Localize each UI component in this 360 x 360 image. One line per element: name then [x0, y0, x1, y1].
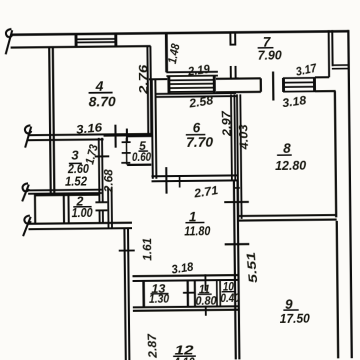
- room3 right wall: [99, 138, 103, 223]
- door jamb ticks room4: [115, 125, 127, 148]
- dim 3.17: [294, 61, 319, 79]
- hall east wall: [234, 180, 239, 359]
- dim 2.97: [219, 109, 234, 137]
- hall top wall: [151, 175, 237, 181]
- svg-text:7.70: 7.70: [186, 135, 214, 150]
- room7 left wall stub upper: [230, 32, 235, 44]
- svg-text:0.80: 0.80: [195, 294, 216, 308]
- door tick room3: [95, 155, 109, 157]
- wall box11-box10: [217, 281, 221, 307]
- dim 1.61: [140, 237, 154, 260]
- room2 top wall: [64, 194, 100, 196]
- room4 left wall: [49, 47, 54, 193]
- svg-text:2.68: 2.68: [101, 169, 115, 193]
- room8 right wall: [335, 91, 336, 217]
- room6 label: [186, 120, 214, 150]
- svg-text:4: 4: [95, 78, 104, 94]
- svg-text:3.16: 3.16: [75, 120, 103, 137]
- door tick hall small: [179, 177, 181, 188]
- break mark B2: [25, 125, 32, 147]
- room3 label: [65, 147, 89, 188]
- box13 left wall: [142, 281, 145, 307]
- room4 right wall: [147, 46, 151, 137]
- wall rooms8-9: [238, 215, 336, 221]
- wall east of W3 bottom: [315, 90, 335, 92]
- svg-text:8: 8: [283, 141, 291, 156]
- svg-text:4.03: 4.03: [236, 124, 251, 151]
- tick door hall west: [119, 249, 135, 251]
- room7 left wall stub lower: [231, 66, 239, 79]
- room2 label: [71, 194, 92, 220]
- break mark B1: [5, 29, 12, 54]
- box11 left wall: [194, 281, 196, 307]
- room1 label: [184, 209, 211, 239]
- svg-text:0.60: 0.60: [132, 150, 151, 164]
- south closets bottom wall: [133, 306, 239, 311]
- break mark B3: [22, 183, 29, 201]
- dim 3.18: [281, 93, 307, 110]
- svg-text:5.51: 5.51: [244, 251, 260, 283]
- dim 2.58: [187, 93, 214, 111]
- tick door room12: [205, 307, 207, 316]
- room6 right wall: [231, 94, 235, 180]
- dim 2.76: [136, 64, 150, 95]
- break mark B4: [23, 216, 31, 237]
- dim 1.48: [165, 42, 183, 65]
- hall west wall: [124, 228, 129, 360]
- svg-text:2.87: 2.87: [145, 332, 160, 359]
- svg-text:3: 3: [71, 147, 79, 162]
- dim 2.68: [101, 169, 115, 193]
- wall east of W3 top: [315, 76, 329, 78]
- closet box: [35, 195, 64, 223]
- svg-text:8.70: 8.70: [89, 94, 117, 109]
- dim 2.71: [192, 183, 219, 201]
- svg-text:1.00: 1.00: [72, 206, 93, 220]
- svg-text:2.76: 2.76: [136, 64, 150, 95]
- closet5 box: [121, 136, 152, 165]
- room6 left wall: [152, 79, 157, 179]
- tick door box11 top: [204, 274, 206, 290]
- door ticks room2: [95, 202, 107, 210]
- door leaf room7: [272, 72, 274, 101]
- window W1 room4: [76, 34, 116, 46]
- window W2 loggia: [167, 76, 215, 94]
- south wall rooms2-3: [28, 223, 132, 229]
- svg-text:17.50: 17.50: [280, 311, 311, 326]
- east outer wall: [348, 30, 351, 358]
- box13 right wall: [187, 281, 190, 307]
- svg-text:1.61: 1.61: [140, 237, 154, 260]
- north outer wall bottom line: [11, 46, 151, 47]
- dim 3.16: [75, 120, 103, 137]
- ledge wall: [149, 78, 167, 80]
- room4 label: [88, 78, 116, 110]
- dim 2.19: [186, 62, 211, 79]
- dim 1.73: [82, 143, 101, 166]
- svg-text:11.80: 11.80: [184, 223, 211, 238]
- room11 label: [195, 282, 217, 308]
- room6 top wall: [155, 93, 236, 97]
- south closets top wall: [133, 275, 239, 281]
- svg-text:0.40: 0.40: [220, 291, 239, 305]
- door tick box13: [183, 292, 195, 294]
- room8 label: [275, 140, 307, 172]
- room13 label: [149, 281, 170, 306]
- recess wall vertical: [165, 34, 168, 73]
- corridor west wall: [108, 188, 112, 229]
- tick door room8: [224, 201, 249, 203]
- svg-text:1.30: 1.30: [149, 292, 169, 306]
- svg-text:4.10: 4.10: [173, 354, 196, 360]
- tick hall NE: [234, 187, 240, 189]
- door jamb room7: [260, 78, 262, 91]
- dim 3.18 hall: [170, 259, 194, 276]
- room7 label: [257, 34, 282, 62]
- wall closet-room2: [67, 195, 69, 223]
- room9 label: [280, 296, 311, 325]
- jog wall room7: [332, 65, 349, 69]
- svg-text:7.90: 7.90: [258, 47, 283, 62]
- dim 2.87: [145, 332, 160, 359]
- dim 4.03: [236, 124, 251, 151]
- svg-text:6: 6: [193, 120, 201, 135]
- svg-text:12.80: 12.80: [275, 158, 307, 173]
- room4 south wall: [28, 134, 152, 140]
- room12 label: [173, 342, 196, 360]
- window W3 room7-room8: [283, 78, 315, 92]
- north outer wall top line: [10, 31, 348, 35]
- tick door room9: [225, 243, 250, 245]
- room9 right wall: [337, 221, 338, 358]
- room10 label: [220, 279, 240, 305]
- room7 south wall band: [216, 78, 261, 92]
- room7 right wall: [329, 30, 333, 77]
- room8 left wall: [237, 94, 242, 219]
- room3 bottom wall: [28, 190, 102, 194]
- dim 5.51: [244, 251, 260, 283]
- svg-text:1.52: 1.52: [65, 174, 87, 188]
- recess band wall: [166, 72, 218, 76]
- svg-text:2.97: 2.97: [219, 109, 234, 137]
- room5 label: [132, 139, 152, 164]
- door tick hall-room6: [165, 167, 167, 193]
